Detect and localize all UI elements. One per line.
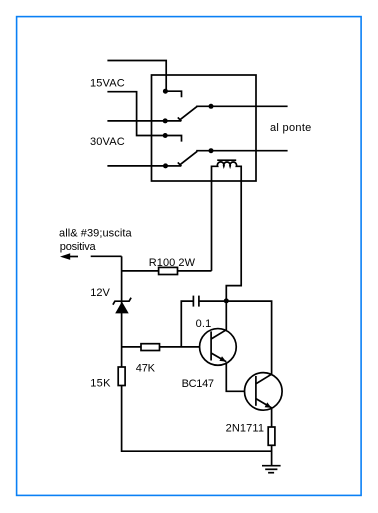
svg-text:BC147: BC147 xyxy=(182,378,214,390)
svg-text:positiva: positiva xyxy=(60,241,97,253)
svg-text:all& #39;uscita: all& #39;uscita xyxy=(59,227,132,239)
svg-text:47K: 47K xyxy=(136,362,156,374)
svg-text:15K: 15K xyxy=(90,377,111,389)
svg-text:12V: 12V xyxy=(90,287,110,299)
svg-text:al ponte: al ponte xyxy=(270,122,311,134)
svg-text:15VAC: 15VAC xyxy=(90,78,125,90)
svg-text:2N1711: 2N1711 xyxy=(226,423,264,435)
svg-text:30VAC: 30VAC xyxy=(90,136,125,148)
svg-text:R100 2W: R100 2W xyxy=(149,257,196,269)
svg-text:0.1: 0.1 xyxy=(196,318,212,330)
